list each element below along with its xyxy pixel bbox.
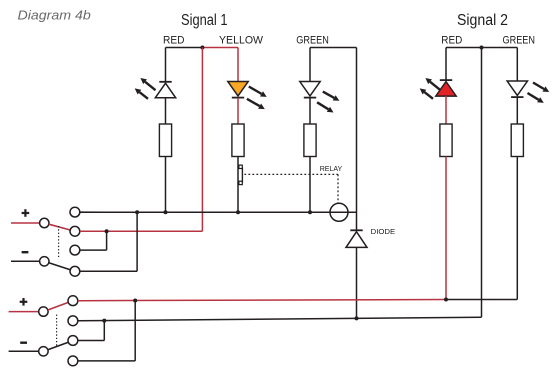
- wire Signal1 bus (through relay coil): [80, 211, 357, 213]
- LED D4 red (Signal 2): [440, 79, 452, 81]
- diode D6: [346, 232, 367, 248]
- wire Signal2 top rail: [446, 47, 517, 49]
- light arrows LED D3: [323, 92, 334, 98]
- label - (battery 2 negative): [20, 342, 27, 344]
- node junction T3 link: [102, 319, 106, 323]
- node junction T2-T3 link: [105, 229, 109, 233]
- wire diode to bottom rail: [356, 247, 358, 318]
- wire T4-bus link vertical: [136, 212, 138, 271]
- switch terminal T3 (group1): [70, 245, 80, 255]
- wire S1 yellow LED anode (red): [237, 48, 239, 82]
- wire S1 green resistor to bus: [309, 157, 311, 213]
- switch terminal T1 (group2): [68, 296, 78, 306]
- switch S1a blade (red, to throw 2): [49, 224, 70, 230]
- wire T2 long rail (to Signal2 common): [78, 317, 482, 321]
- wire T3-T2 link vertical: [106, 231, 108, 250]
- wire S1 red LED anode: [165, 48, 167, 82]
- wire Signal1 top rail right (red): [202, 47, 238, 49]
- wire T1 to Signal1 bus: [80, 211, 106, 213]
- label + (battery 1 positive): [22, 212, 30, 214]
- node junction R2-bus: [236, 210, 240, 214]
- wire S1 green LED anode: [309, 48, 311, 82]
- switch S1b pole terminal: [40, 257, 49, 266]
- wire S1 yellow resistor to bus: [237, 157, 239, 213]
- switch S2a pole terminal: [39, 307, 48, 316]
- wire S2 red resistor to bottom red rail: [445, 157, 447, 300]
- resistor R5 (Signal2 green): [511, 124, 523, 157]
- wire battery2 positive lead (red): [9, 311, 39, 313]
- LED D3 green (Signal 1): [300, 82, 320, 96]
- label + (battery 2 positive): [20, 301, 28, 303]
- wire red rail to green branch (black): [446, 299, 517, 301]
- node junction diode-bottom rail: [355, 316, 359, 320]
- node junction Signal2 top: [480, 46, 484, 50]
- resistor R3 (Signal1 green): [304, 124, 316, 157]
- svg-text:Diagram 4b: Diagram 4b: [18, 7, 91, 22]
- wire T4 stub: [80, 270, 137, 272]
- switch terminal T4 (group1): [70, 266, 80, 276]
- diode D6 cathode bar: [350, 229, 362, 231]
- wire battery1 negative lead: [11, 260, 40, 262]
- LED D2 yellow (Signal 1): [228, 82, 248, 96]
- switch terminal T4 (group2): [68, 356, 78, 366]
- node junction red rail - Signal2 red branch: [444, 298, 448, 302]
- wire red vertical from Signal1 junction: [201, 48, 203, 232]
- wire T4-red rail link vertical (group2): [134, 301, 136, 361]
- wire Signal2 common vertical: [481, 48, 483, 318]
- switch terminal T2 (group1): [70, 226, 80, 236]
- wire Signal1 top rail left (black): [166, 47, 203, 49]
- switch S1a pole terminal: [40, 218, 49, 227]
- LED D1 red (Signal 1): [159, 81, 171, 83]
- wire S1 yellow LED to resistor (red): [237, 98, 239, 124]
- relay dotted link vertical: [337, 174, 339, 204]
- relay coil K1: [330, 203, 348, 221]
- switch terminal T1 (group1): [70, 207, 80, 217]
- wire S1 red LED to resistor: [165, 98, 167, 124]
- light arrows LED D5: [533, 83, 544, 90]
- node junction R3-bus: [308, 210, 312, 214]
- resistor R1 (Signal1 red): [159, 124, 171, 157]
- wire T3-T2 link vertical (group2): [103, 321, 105, 341]
- svg-text:RELAY: RELAY: [320, 164, 343, 173]
- wire T3 stub: [80, 249, 107, 251]
- svg-text:RED: RED: [441, 34, 462, 46]
- switch terminal T2 (group2): [68, 316, 78, 326]
- node junction T4-link on red rail: [133, 299, 137, 303]
- light arrows LED D4: [430, 82, 440, 90]
- resistor R4 (Signal2 red): [440, 124, 452, 157]
- node junction T4 link-bus: [135, 210, 139, 214]
- node junction R1-bus: [164, 210, 168, 214]
- label - (battery 1 negative): [22, 251, 29, 253]
- wire Signal1 green top rail: [310, 47, 357, 49]
- wire S2 green LED to resistor: [516, 97, 518, 124]
- wire T3 stub (group2): [78, 340, 105, 342]
- wire diode branch vertical (top): [356, 48, 358, 231]
- wire S2 red LED to resistor (red): [445, 96, 447, 124]
- node junction Signal1 top: [200, 46, 204, 50]
- svg-text:GREEN: GREEN: [296, 34, 329, 46]
- wire S2 green LED anode: [516, 48, 518, 82]
- wire T2 red feed: [80, 230, 203, 232]
- svg-text:GREEN: GREEN: [503, 34, 536, 46]
- svg-text:DIODE: DIODE: [371, 227, 396, 236]
- svg-text:Signal 2: Signal 2: [457, 12, 508, 29]
- light arrows LED D1: [145, 82, 155, 90]
- wire S1 red resistor to bus: [165, 157, 167, 213]
- switch S2b blade (to throw 3): [48, 342, 69, 349]
- wire S2 red LED anode: [445, 48, 447, 81]
- svg-text:Signal 1: Signal 1: [181, 12, 228, 29]
- switch S1b blade (to throw 4): [49, 263, 70, 270]
- wire battery1 positive lead (red): [11, 222, 40, 224]
- relay dotted link horizontal: [244, 173, 338, 175]
- resistor R2 (Signal1 yellow): [232, 124, 244, 157]
- svg-text:RED: RED: [163, 34, 185, 46]
- switch terminal T3 (group2): [68, 336, 78, 346]
- LED D5 green (Signal 2): [507, 81, 527, 95]
- wire S1 green LED to resistor: [309, 98, 311, 124]
- svg-text:YELLOW: YELLOW: [219, 34, 264, 46]
- wire bottom red rail (T1 group2 to Signal2 red): [78, 300, 446, 301]
- wire battery2 negative lead: [9, 350, 39, 352]
- relay contact K1 (on yellow branch): [239, 165, 242, 168]
- wire T4 stub (group2): [78, 360, 135, 362]
- light arrows LED D2: [249, 87, 262, 94]
- switch linkage (dashed) group1: [58, 226, 60, 259]
- switch S2b pole terminal: [39, 347, 48, 356]
- wire S2 green resistor down: [516, 157, 518, 300]
- switch linkage (dashed) group2: [56, 315, 58, 347]
- switch S2a blade (red, to throw 1): [48, 302, 69, 310]
